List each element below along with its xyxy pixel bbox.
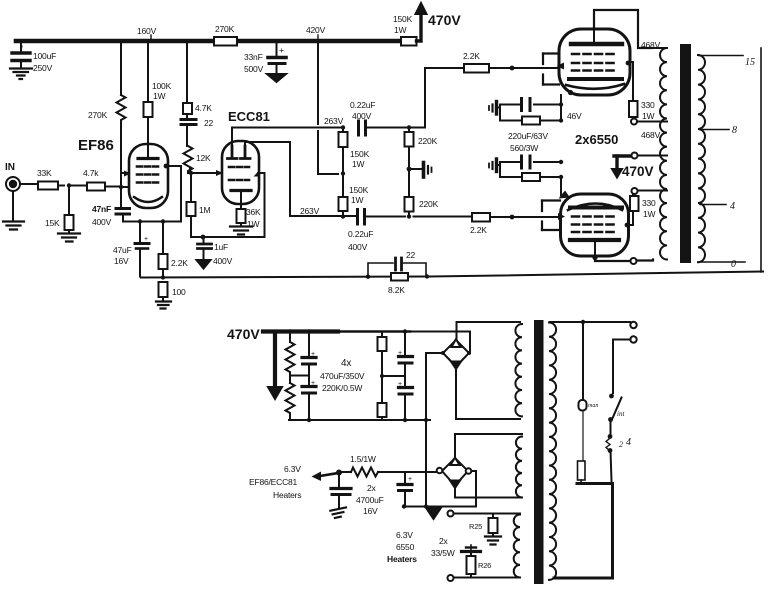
svg-text:8: 8 (732, 125, 737, 136)
svg-text:16V: 16V (363, 506, 378, 516)
svg-text:2x6550: 2x6550 (575, 132, 618, 147)
svg-text:R26: R26 (478, 561, 491, 570)
svg-text:2.2K: 2.2K (470, 225, 487, 235)
resistor 4.7K (screen) (183, 103, 212, 114)
resistor 220K bleeder (lower) (286, 373, 310, 420)
node 160V (137, 26, 157, 39)
svg-text:560/3W: 560/3W (510, 143, 538, 153)
node tap 0 (698, 259, 745, 270)
wire B2 AC bottom (454, 486, 456, 498)
svg-text:150K: 150K (349, 185, 369, 195)
resistor 100K 1W (144, 81, 172, 157)
capacitor 33nF/500V (244, 43, 286, 82)
tube EF86 (129, 131, 168, 208)
wire B1 AC top (457, 322, 521, 339)
wire 6550 beam plates (upper) (543, 54, 559, 85)
svg-text:22: 22 (204, 118, 214, 128)
node tap 15 (699, 56, 755, 69)
node 470V (top arrow) (416, 3, 462, 41)
svg-text:6550: 6550 (396, 542, 415, 552)
svg-text:IN: IN (5, 162, 15, 173)
svg-text:500V: 500V (244, 64, 264, 74)
svg-text:2x: 2x (439, 536, 449, 546)
svg-text:1W: 1W (351, 195, 364, 205)
svg-text:33nF: 33nF (244, 52, 263, 62)
svg-text:330: 330 (642, 198, 656, 208)
resistor 36K 1W (230, 207, 261, 235)
transformer mains primary (549, 323, 556, 580)
capacitor 4700uF (left) (330, 475, 351, 519)
svg-text:100uF: 100uF (33, 51, 56, 61)
resistor 330 1W (upper screen) (629, 62, 655, 125)
label 4x 470uF/350V 220K/0.5W (320, 358, 365, 393)
label 6.3V 6550 Heaters (387, 530, 417, 564)
wire 270K branch (120, 43, 122, 95)
wire mains top (550, 320, 637, 328)
svg-text:400V: 400V (352, 111, 372, 121)
svg-text:R25: R25 (469, 522, 482, 531)
svg-text:47nF: 47nF (92, 204, 111, 214)
svg-text:22: 22 (406, 250, 416, 260)
svg-text:6.3V: 6.3V (284, 464, 301, 474)
resistor 8.2K (NFB) (388, 273, 408, 295)
svg-text:400V: 400V (213, 256, 233, 266)
capacitor 47nF/400V (92, 204, 130, 227)
transformer mains HV winding (515, 324, 522, 416)
svg-text:4: 4 (730, 201, 735, 212)
resistor 220K bleeder2 (upper) (378, 332, 406, 404)
tube 6550 (lower) (558, 191, 629, 261)
node 470V (OPT centre tap) (612, 153, 654, 180)
ground (PSU) (427, 509, 441, 520)
svg-text:270K: 270K (215, 24, 235, 34)
svg-text:33/5W: 33/5W (431, 548, 455, 558)
svg-text:6.3V: 6.3V (396, 530, 413, 540)
transformer OPT primary (653, 48, 667, 260)
resistor 220K (upper) (405, 125, 438, 197)
transformer mains heater winding 1 (455, 434, 522, 498)
svg-text:220K/0.5W: 220K/0.5W (322, 383, 362, 393)
svg-text:+: + (408, 476, 412, 483)
svg-text:1W: 1W (352, 159, 365, 169)
svg-text:36K: 36K (246, 207, 261, 217)
svg-text:EF86/ECC81: EF86/ECC81 (249, 477, 298, 487)
svg-text:0: 0 (731, 259, 736, 270)
wire ECC81 out (lower) (245, 142, 356, 216)
wire PSU heater dc (402, 504, 476, 508)
switch voltage selector (606, 420, 631, 453)
wire EF86 cathode (123, 164, 181, 224)
svg-text:220K: 220K (418, 136, 438, 146)
svg-text:16V: 16V (114, 256, 129, 266)
svg-text:4x: 4x (341, 358, 351, 369)
capacitor 470uF (bank1 lower) (302, 380, 316, 422)
svg-text:1W: 1W (153, 91, 166, 101)
wire ECC81 grid (189, 168, 260, 177)
label 6.3V EF86/ECC81 Heaters (249, 464, 301, 500)
capacitor 470uF (bank2 lower) (398, 381, 413, 422)
svg-text:4.7K: 4.7K (195, 103, 212, 113)
svg-text:150K: 150K (393, 14, 413, 24)
svg-text:263V: 263V (300, 206, 320, 216)
resistor R25 (469, 514, 501, 545)
node 470V (PSU) (227, 326, 410, 399)
wire NFB line (141, 272, 763, 280)
wire 6550 plate (lower) (595, 258, 653, 264)
wire B1 AC bottom (456, 368, 520, 419)
svg-text:263V: 263V (324, 116, 344, 126)
svg-text:15K: 15K (45, 218, 60, 228)
svg-text:2.2K: 2.2K (171, 258, 188, 268)
svg-text:ECC81: ECC81 (228, 109, 270, 124)
svg-text:12K: 12K (196, 153, 211, 163)
wire ECC81 plate out (upper) (232, 128, 343, 149)
svg-text:330: 330 (641, 100, 655, 110)
svg-text:2.2K: 2.2K (463, 51, 480, 61)
svg-text:Heaters: Heaters (387, 554, 417, 564)
svg-text:0.22uF: 0.22uF (350, 100, 375, 110)
tube ECC81 (222, 141, 259, 209)
wire PSU - rail (289, 418, 430, 422)
svg-text:150K: 150K (350, 149, 370, 159)
svg-text:420V: 420V (306, 25, 326, 35)
svg-text:1W: 1W (642, 111, 655, 121)
resistor 220K bleeder (upper) (286, 329, 295, 373)
svg-text:160V: 160V (137, 26, 157, 36)
svg-text:2x: 2x (367, 483, 377, 493)
wire plate branch (147, 43, 149, 102)
node 6.3V 6550 terminal bottom (448, 575, 454, 581)
svg-text:1W: 1W (394, 25, 407, 35)
capacitor 1uF/400V (197, 237, 233, 269)
svg-text:4.7k: 4.7k (83, 168, 99, 178)
resistor 100 (156, 282, 186, 309)
capacitor 470uF (bank1 upper) (302, 329, 316, 385)
svg-text:250V: 250V (33, 63, 53, 73)
resistor 150K 1W (upper) (339, 128, 370, 198)
resistor 4.7k (grid stopper) (69, 168, 121, 191)
svg-text:1uF: 1uF (214, 242, 228, 252)
svg-text:400V: 400V (348, 242, 368, 252)
svg-text:470uF/350V: 470uF/350V (320, 371, 365, 381)
fuse (579, 322, 599, 461)
svg-text:100K: 100K (152, 81, 172, 91)
transformer mains core (534, 320, 544, 584)
capacitor 22 (NFB bypass) (366, 250, 429, 279)
label 2x 33/5W (431, 536, 455, 558)
resistor 220K (lower) (405, 197, 439, 219)
transformer OPT secondary (698, 55, 705, 262)
ground (grid divider) (407, 163, 432, 178)
resistor 220K bleeder2 (lower) (378, 403, 387, 420)
node input junction (67, 183, 71, 187)
switch mains (608, 336, 637, 422)
wire B2 AC top (454, 434, 456, 458)
rectifier bridge B1 (441, 339, 471, 369)
wire 6550 cathode (upper) (559, 95, 563, 123)
resistor 270K (rail) (214, 24, 237, 46)
svg-text:8.2K: 8.2K (388, 285, 405, 295)
wire EF86 grid (119, 122, 131, 208)
wire 420V branch (318, 43, 338, 174)
capacitor 100uF/250V (10, 43, 56, 79)
wire frame right (760, 48, 762, 272)
wire PSU + rail (410, 332, 470, 350)
capacitor 4700uF (right) (398, 472, 412, 507)
transformer OPT core (680, 44, 691, 263)
svg-text:man: man (588, 403, 598, 409)
label 220uF/63V 560/3W (508, 131, 548, 153)
capacitor 47uF/16V (113, 222, 149, 277)
svg-text:470V: 470V (428, 12, 461, 28)
svg-text:47uF: 47uF (113, 245, 132, 255)
svg-text:400V: 400V (92, 217, 112, 227)
svg-text:470V: 470V (227, 326, 260, 342)
svg-text:1.5/1W: 1.5/1W (350, 454, 376, 464)
label 2x 4700uF 16V (356, 483, 384, 516)
svg-text:1W: 1W (643, 209, 656, 219)
svg-text:470V: 470V (622, 164, 654, 179)
svg-text:4: 4 (626, 437, 631, 448)
svg-text:4700uF: 4700uF (356, 495, 384, 505)
svg-text:+: + (144, 236, 148, 243)
capacitor/resistor 220uF/560 (lower cathode) (489, 156, 563, 195)
svg-text:+: + (279, 45, 284, 55)
svg-text:220uF/63V: 220uF/63V (508, 131, 548, 141)
fuse 2 (578, 461, 586, 484)
resistor 270K (grid leak) (88, 95, 126, 122)
wire B2 + (472, 471, 477, 507)
svg-text:Heaters: Heaters (273, 490, 301, 500)
svg-text:EF86: EF86 (78, 137, 114, 154)
svg-text:270K: 270K (88, 110, 108, 120)
resistor 12K (184, 146, 212, 173)
wire HT rail (16, 39, 401, 44)
capacitor 0.22uF/400V (upper) (341, 100, 409, 135)
svg-text:2: 2 (619, 440, 623, 449)
capacitor 470uF (bank2 upper) (398, 329, 413, 386)
resistor 2.2K (cathode) (159, 222, 189, 278)
node 6.3V 6550 terminal top (448, 511, 521, 517)
resistor 15K (45, 186, 80, 242)
wire grid return (191, 173, 265, 239)
wire mains return (554, 451, 613, 579)
resistor 150K 1W (rail right) (393, 14, 417, 46)
ground (R26 tap) (462, 545, 481, 556)
tube 6550 (upper) (557, 29, 631, 95)
wire 6550 plate (upper) (594, 10, 652, 48)
capacitor 22 (screen bypass) (181, 114, 214, 146)
svg-text:0.22uF: 0.22uF (348, 229, 373, 239)
resistor 33K (37, 168, 64, 190)
capacitor/resistor 220uF/560 (upper cathode) (489, 99, 561, 125)
resistor 1.5/1W (342, 454, 437, 477)
rectifier bridge B2 (437, 458, 472, 489)
resistor 1M (187, 173, 211, 237)
svg-text:468V: 468V (641, 130, 661, 140)
wire 6550 beam plates (lower) (542, 201, 560, 231)
svg-text:int: int (617, 410, 625, 418)
node 420V (306, 25, 326, 39)
node tap 4 (700, 201, 735, 212)
wire screen branch (186, 43, 188, 103)
resistor 330 1W (lower screen) (627, 188, 656, 225)
svg-text:15: 15 (745, 57, 755, 68)
resistor 2.2K (lower grid stopper) (414, 213, 559, 235)
resistor 150K 1W (lower) (339, 185, 369, 219)
resistor R26 (467, 556, 492, 578)
svg-text:33K: 33K (37, 168, 52, 178)
transformer mains heater winding 2 (454, 514, 520, 578)
wire B1 - (426, 353, 443, 507)
node heater feed (312, 470, 343, 482)
svg-text:220K: 220K (419, 199, 439, 209)
svg-text:100: 100 (172, 287, 186, 297)
svg-text:1M: 1M (199, 205, 211, 215)
capacitor 0.22uF/400V (lower) (348, 210, 405, 253)
resistor 2.2K (upper grid stopper) (409, 51, 558, 128)
input jack (3, 177, 38, 230)
node tap 8 (700, 125, 737, 136)
svg-text:46V: 46V (567, 111, 582, 121)
wire B1 + (469, 332, 470, 354)
